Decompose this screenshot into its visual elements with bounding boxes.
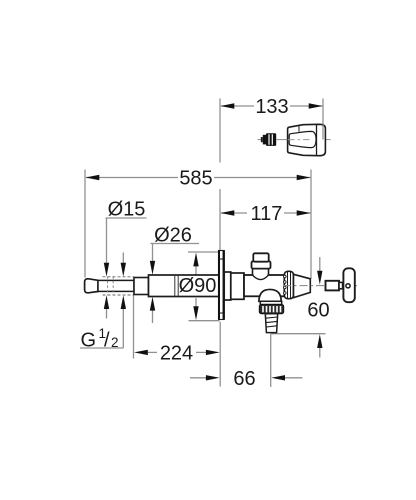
- svg-text:2: 2: [111, 335, 119, 350]
- svg-text:G: G: [81, 330, 97, 352]
- svg-text:Ø26: Ø26: [154, 225, 192, 247]
- svg-text:66: 66: [233, 368, 255, 390]
- svg-text:/: /: [104, 330, 110, 352]
- svg-text:60: 60: [307, 300, 329, 322]
- svg-text:224: 224: [160, 343, 193, 365]
- svg-text:Ø90: Ø90: [179, 275, 217, 297]
- svg-text:585: 585: [179, 168, 212, 190]
- svg-text:Ø15: Ø15: [108, 199, 146, 221]
- svg-text:117: 117: [251, 203, 283, 225]
- svg-text:133: 133: [255, 96, 288, 118]
